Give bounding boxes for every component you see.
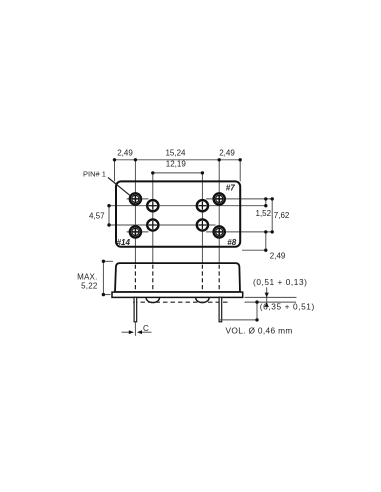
svg-text:C: C (143, 324, 149, 333)
standoff bump right (196, 298, 209, 303)
wire centerline inner-left column (152, 173, 154, 263)
wire lead centerline below lead (134, 322, 136, 336)
svg-text:2,49: 2,49 (117, 148, 133, 157)
svg-text:#8: #8 (227, 238, 236, 247)
wire centerline pin1 column (134, 160, 136, 263)
package top view outline (116, 181, 240, 246)
pin 14 bullseye (130, 226, 141, 237)
svg-text:2,49: 2,49 (270, 252, 286, 261)
svg-text:4,57: 4,57 (89, 211, 105, 220)
dimension C lead width (122, 324, 152, 334)
svg-text:VOL. Ø 0,46 mm: VOL. Ø 0,46 mm (226, 326, 293, 336)
pin 7 bullseye (214, 193, 225, 204)
pin inner bottom-left cross (147, 219, 158, 230)
svg-text:(6,35 + 0,51): (6,35 + 0,51) (260, 302, 315, 312)
dimension 4,57 (89, 204, 111, 227)
dimension line 12,19 (153, 172, 203, 174)
dimension 1,52 (256, 197, 272, 218)
hidden line pin7 column (218, 265, 220, 292)
svg-text:2,49: 2,49 (219, 148, 235, 157)
pin inner top-left cross (147, 200, 158, 211)
hidden line inner-right column (201, 265, 203, 292)
wire row line inner bottom (109, 224, 216, 226)
wire row line bullseye bottom (127, 231, 149, 233)
wire extension package right edge (239, 160, 241, 182)
wire centerline inner-right column (201, 173, 203, 263)
svg-text:1,52: 1,52 (256, 209, 272, 218)
svg-text:PIN# 1: PIN# 1 (83, 169, 106, 178)
hidden line pin1 column (134, 265, 136, 292)
wire row line inner top (109, 205, 266, 207)
svg-text:#7: #7 (226, 184, 235, 193)
wire leader to pin 1 (108, 178, 130, 196)
svg-text:7,62: 7,62 (274, 211, 290, 220)
dimension 2,49 bottom right (242, 230, 286, 261)
svg-text:15,24: 15,24 (165, 148, 186, 157)
pin 8 bullseye (214, 226, 225, 237)
dimension MAX. 5,22 (77, 260, 113, 297)
wire centerline pin7 column (218, 160, 220, 263)
svg-text:#14: #14 (117, 238, 131, 247)
pin 1 bullseye (130, 193, 141, 204)
side view body (115, 263, 240, 292)
dimension line 2,49 15,24 2,49 (115, 159, 241, 161)
dimension (6,35 + 0,51) lead length (219, 300, 315, 321)
standoff bump left (146, 298, 159, 303)
side view base flange (112, 292, 243, 297)
hidden line inner-left column (152, 265, 154, 292)
pin inner top-right cross (197, 200, 208, 211)
lead right (219, 297, 222, 322)
svg-text:5,22: 5,22 (81, 282, 98, 291)
svg-text:12,19: 12,19 (166, 159, 187, 168)
lead left (134, 297, 137, 322)
pin inner bottom-right cross (197, 219, 208, 230)
svg-text:MAX.: MAX. (77, 272, 97, 281)
seating plane hidden line (133, 301, 230, 303)
dimension (0,51 + 0,13) standoff height (245, 277, 308, 308)
svg-text:(0,51 + 0,13): (0,51 + 0,13) (253, 277, 307, 287)
dimension 7,62 (271, 197, 290, 233)
wire extension package left edge (114, 160, 116, 182)
wire row line bullseye top (127, 198, 149, 200)
